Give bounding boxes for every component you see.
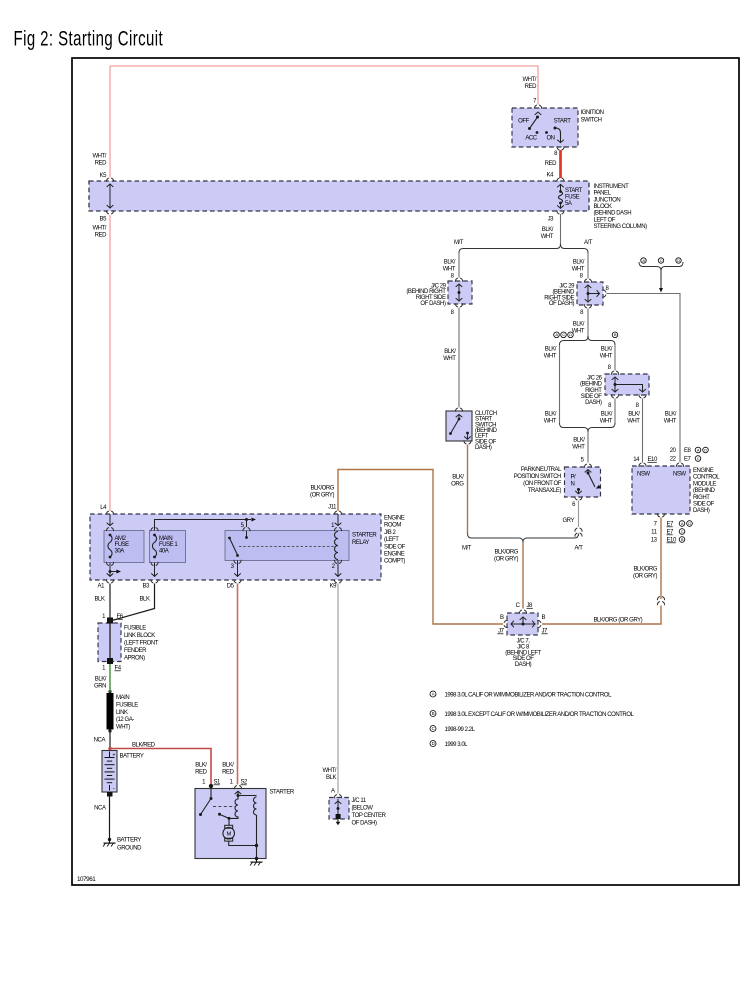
diagram id 107961 [77, 876, 96, 883]
svg-text:BLK/: BLK/ [452, 475, 464, 481]
main fusible link [107, 690, 139, 733]
svg-text:LINK: LINK [116, 710, 128, 716]
svg-text:STEERING COLUMN): STEERING COLUMN) [594, 224, 648, 230]
wire BLK/WHT J/C26 left output [600, 399, 615, 425]
start fuse 5A in junction block [548, 184, 583, 222]
wire NCA battery to ground [94, 797, 109, 839]
svg-text:FUSIBLE: FUSIBLE [124, 626, 146, 632]
svg-text:ORG: ORG [451, 482, 464, 488]
svg-text:WHT: WHT [544, 419, 557, 425]
wire NCA main fusible link to battery [94, 731, 110, 751]
svg-text:BATTERY: BATTERY [117, 838, 141, 844]
svg-text:WHT): WHT) [116, 725, 130, 731]
svg-text:DASH): DASH) [585, 400, 602, 406]
svg-text:(BEHIND DASH: (BEHIND DASH [594, 211, 632, 217]
svg-text:D5: D5 [227, 584, 235, 590]
svg-text:PANEL: PANEL [594, 191, 612, 197]
svg-text:107961: 107961 [77, 876, 96, 883]
svg-text:K9: K9 [330, 584, 338, 590]
title [14, 27, 164, 50]
svg-text:BLK/: BLK/ [573, 322, 585, 328]
svg-text:OFF: OFF [518, 119, 529, 125]
svg-text:POSITION SWITCH: POSITION SWITCH [514, 474, 561, 480]
junction connector J/C 7, J/C 8 [497, 603, 548, 668]
svg-text:GRN: GRN [94, 684, 106, 690]
svg-text:JUNCTION: JUNCTION [594, 197, 621, 203]
svg-text:BLK/: BLK/ [222, 763, 234, 769]
svg-text:BLK/: BLK/ [628, 412, 640, 418]
brace merge to park/neutral switch [560, 423, 616, 432]
svg-text:BLK/: BLK/ [601, 347, 613, 353]
svg-text:FENDER: FENDER [124, 648, 147, 654]
svg-text:BLK/ORG: BLK/ORG [494, 550, 518, 556]
svg-text:(OR GRY): (OR GRY) [494, 557, 518, 563]
wire BLK B3 to F6 [112, 584, 155, 621]
svg-text:PARK/NEUTRAL: PARK/NEUTRAL [521, 467, 562, 473]
svg-text:A/T: A/T [584, 240, 593, 246]
svg-text:SIDE OF: SIDE OF [693, 502, 715, 508]
svg-text:WHT: WHT [600, 419, 613, 425]
svg-text:OF DASH): OF DASH) [549, 301, 575, 307]
svg-text:(ON FRONT OF: (ON FRONT OF [523, 481, 562, 487]
svg-text:D: D [432, 741, 435, 746]
svg-text:1998 3.0L CALIF OR W/IMMOBILIZ: 1998 3.0L CALIF OR W/IMMOBILIZER AND/OR … [445, 693, 613, 699]
wire relay pin 2 to K9 [330, 561, 342, 590]
wire BLK/WHT M/T branch to J/C29 [443, 253, 459, 280]
svg-text:SIDE OF: SIDE OF [581, 394, 603, 400]
fuse AM2 30A [104, 528, 144, 566]
svg-text:WHT: WHT [572, 267, 585, 273]
svg-text:LEFT OF: LEFT OF [594, 217, 616, 223]
brace split M/T A/T [454, 240, 593, 253]
svg-text:MAIN: MAIN [159, 536, 172, 542]
svg-text:WHT/: WHT/ [92, 154, 106, 160]
svg-text:OF DASH): OF DASH) [420, 301, 446, 307]
svg-text:BLK/: BLK/ [545, 347, 557, 353]
svg-text:30A: 30A [115, 549, 125, 555]
svg-text:BATTERY: BATTERY [120, 754, 144, 760]
wire BLK A1 to F6 [95, 584, 112, 623]
wire BLK/GRN F4 to main fusible link [94, 664, 110, 692]
svg-text:WHT/: WHT/ [322, 768, 336, 774]
svg-text:WHT: WHT [627, 419, 640, 425]
svg-text:RELAY: RELAY [352, 540, 369, 546]
svg-text:DASH): DASH) [693, 508, 710, 514]
svg-text:Fig 2: Starting Circuit: Fig 2: Starting Circuit [14, 27, 164, 50]
junction connector J/C 29 A/T [544, 279, 609, 308]
svg-text:1998-99 2.2L: 1998-99 2.2L [445, 727, 476, 733]
svg-text:(BEHIND: (BEHIND [580, 382, 603, 388]
fusible link block [98, 614, 159, 672]
svg-text:BLK/ORG: BLK/ORG [310, 486, 334, 492]
wire J11 into relay coil [335, 514, 342, 526]
svg-text:ENGINE: ENGINE [384, 516, 405, 522]
starter [195, 784, 295, 859]
svg-text:BLK/ORG: BLK/ORG [633, 567, 657, 573]
ECM lower pin labels [651, 521, 693, 544]
wire BLK/WHT J3 to M/T-A/T split [541, 214, 561, 245]
svg-text:RIGHT: RIGHT [585, 388, 602, 394]
svg-text:BLK: BLK [140, 597, 150, 603]
svg-text:WHT: WHT [443, 267, 456, 273]
svg-text:BLK/: BLK/ [542, 227, 554, 233]
svg-text:A1: A1 [98, 584, 106, 590]
starter ground [250, 857, 262, 866]
svg-text:M/T: M/T [462, 546, 472, 552]
park/neutral position switch [514, 464, 601, 500]
svg-text:SIDE OF: SIDE OF [384, 544, 406, 550]
brace merge M/T A/T to BLK/ORG [462, 534, 583, 552]
svg-text:RED: RED [222, 770, 234, 776]
svg-text:RIGHT: RIGHT [693, 495, 710, 501]
svg-text:J11: J11 [328, 505, 337, 511]
svg-text:N: N [571, 482, 575, 488]
svg-text:BLK: BLK [95, 597, 105, 603]
svg-text:BLK/: BLK/ [573, 260, 585, 266]
ignition switch [512, 105, 604, 150]
svg-text:LINK BLOCK: LINK BLOCK [124, 633, 155, 639]
wire BLK/ORG to J/C7 J/C8 [494, 543, 523, 609]
svg-text:B: B [542, 615, 546, 621]
wire MAIN FUSE 1 to B3 [143, 563, 159, 590]
fuse MAIN FUSE 1 40A [150, 528, 186, 566]
wire BLK/WHT J/C29 pin8 to ECM NSW [607, 294, 681, 463]
engine room J/B 2 box [90, 514, 406, 580]
svg-text:K4: K4 [547, 173, 555, 179]
wire RED ignition to K4 [545, 150, 564, 182]
svg-text:1999 3.0L: 1999 3.0L [445, 742, 469, 748]
wire WHT/RED B5 to L4 [92, 215, 113, 515]
svg-text:FUSE: FUSE [565, 195, 580, 201]
svg-text:E8: E8 [684, 448, 692, 454]
wire GRY from P/N switch pin 6 [562, 501, 582, 537]
svg-text:WHT: WHT [443, 356, 456, 362]
svg-text:IGNITION: IGNITION [581, 110, 604, 116]
svg-text:ON: ON [546, 136, 554, 142]
svg-text:(BEHIND: (BEHIND [693, 488, 716, 494]
svg-text:GRY: GRY [562, 518, 574, 524]
svg-text:J/C 11: J/C 11 [352, 798, 367, 804]
svg-text:A/T: A/T [575, 546, 584, 552]
svg-text:P/: P/ [571, 475, 577, 481]
svg-text:NSW: NSW [637, 472, 650, 478]
svg-text:ACC: ACC [525, 136, 537, 142]
battery [102, 751, 144, 797]
svg-text:WHT: WHT [541, 234, 554, 240]
svg-text:J/B 2: J/B 2 [384, 530, 397, 536]
svg-text:NCA: NCA [94, 806, 106, 812]
wire BLK/WHT A/T branch to J/C29 [572, 253, 588, 280]
svg-text:BLK/: BLK/ [545, 412, 557, 418]
svg-text:RED: RED [95, 233, 107, 239]
svg-text:M/T: M/T [454, 240, 464, 246]
svg-text:AM2: AM2 [115, 536, 127, 542]
svg-text:STARTER: STARTER [270, 790, 295, 796]
svg-text:40A: 40A [159, 549, 169, 555]
svg-text:ROOM: ROOM [384, 523, 401, 529]
wire AM2 fuse to A1 with branch [98, 563, 121, 590]
svg-text:WHT/: WHT/ [522, 77, 536, 83]
svg-text:SWITCH: SWITCH [581, 118, 602, 124]
svg-text:5A: 5A [565, 201, 572, 207]
svg-text:INSTRUMENT: INSTRUMENT [594, 184, 630, 190]
svg-text:ENGINE: ENGINE [384, 552, 405, 558]
svg-text:RED: RED [95, 161, 107, 167]
model legend [430, 691, 635, 748]
svg-text:BLK/RED: BLK/RED [132, 743, 156, 749]
wire BLK/ORG J/C7 to ECM [542, 518, 665, 625]
svg-text:OF DASH): OF DASH) [352, 821, 378, 827]
svg-text:FUSE 1: FUSE 1 [159, 542, 178, 548]
wire BLK/WHT below J/C29 A/T [572, 309, 588, 337]
wire BLK/WHT merge to P/N switch pin 5 [572, 432, 588, 464]
svg-text:B5: B5 [100, 217, 108, 223]
svg-text:WHT: WHT [572, 329, 585, 335]
brace split ACD / B [554, 332, 618, 345]
svg-text:WHT: WHT [600, 354, 613, 360]
svg-text:BLK/: BLK/ [573, 438, 585, 444]
svg-text:K5: K5 [100, 173, 108, 179]
svg-text:(BELOW: (BELOW [352, 806, 374, 812]
svg-text:GROUND: GROUND [117, 846, 142, 852]
svg-text:BLOCK: BLOCK [594, 204, 613, 210]
svg-text:B: B [500, 615, 504, 621]
svg-text:BLK/: BLK/ [665, 412, 677, 418]
svg-text:J/C 26: J/C 26 [587, 375, 603, 381]
svg-text:FUSE: FUSE [115, 542, 130, 548]
wire BLK/ORG clutch switch to M/T merge [451, 445, 467, 535]
starter relay [225, 523, 377, 570]
svg-text:NSW: NSW [673, 472, 686, 478]
wire BLK/ORG J/C7 to engine room J/B pin J11 [310, 470, 503, 625]
svg-text:BLK/: BLK/ [601, 412, 613, 418]
svg-text:NCA: NCA [94, 738, 106, 744]
wire BLK/RED battery to starter S1 [108, 743, 221, 786]
svg-text:COMPT): COMPT) [384, 559, 405, 565]
wire L4 into AM2 fuse [107, 514, 114, 526]
svg-text:WHT/: WHT/ [92, 226, 106, 232]
svg-text:RED: RED [195, 770, 207, 776]
ECM top pin labels [633, 447, 708, 463]
engine control module [632, 463, 720, 517]
svg-text:E7: E7 [684, 457, 692, 463]
svg-text:MAIN: MAIN [116, 695, 129, 701]
border frame [72, 58, 739, 885]
svg-text:WHT: WHT [664, 419, 677, 425]
wire BLK/WHT B branch to J/C26 [600, 345, 615, 371]
svg-text:TOP CENTER: TOP CENTER [352, 813, 387, 819]
svg-text:MODULE: MODULE [693, 481, 716, 487]
svg-text:RED: RED [525, 84, 537, 90]
svg-text:TRANSAXLE): TRANSAXLE) [528, 488, 562, 494]
clutch start switch [446, 408, 498, 451]
wire WHT/BLK K9 to J/C 11 [322, 584, 338, 795]
battery ground [103, 838, 142, 852]
wire relay pin 3 to D5 [227, 561, 241, 590]
svg-text:START: START [565, 188, 583, 194]
svg-text:ENGINE: ENGINE [693, 468, 714, 474]
wire BLK/WHT ACD branch [544, 345, 560, 425]
svg-text:A: A [331, 789, 335, 795]
svg-text:BLK/: BLK/ [95, 677, 107, 683]
svg-text:BLK/: BLK/ [444, 260, 456, 266]
svg-text:(LEFT: (LEFT [384, 537, 399, 543]
svg-text:(12 GA-: (12 GA- [116, 717, 134, 723]
svg-text:WHT: WHT [572, 445, 585, 451]
wire through junction block K5-B5 [100, 184, 114, 223]
svg-text:APRON): APRON) [124, 656, 145, 662]
svg-text:WHT: WHT [544, 354, 557, 360]
wire WHT/RED from battery feed to ignition switch [110, 66, 538, 105]
svg-text:START: START [554, 119, 572, 125]
svg-text:BLK/ORG (OR GRY): BLK/ORG (OR GRY) [594, 618, 643, 624]
svg-text:BLK/: BLK/ [195, 763, 207, 769]
junction connector J/C 29 M/T [406, 278, 472, 307]
junction connector J/C 26 [580, 371, 649, 409]
wire WHT/RED left drop to K5 [92, 66, 113, 182]
wire BLK/RED D5 to starter S2 [222, 584, 248, 786]
svg-text:BLK: BLK [326, 775, 336, 781]
wire BLK/WHT J/C29 to clutch start switch [443, 308, 459, 408]
svg-text:C: C [432, 726, 435, 731]
svg-text:BLK/: BLK/ [444, 349, 456, 355]
svg-text:RED: RED [545, 161, 557, 167]
svg-text:FUSIBLE: FUSIBLE [116, 702, 138, 708]
instrument panel junction block [89, 181, 647, 230]
svg-text:STARTER: STARTER [352, 533, 377, 539]
svg-text:(OR GRY): (OR GRY) [633, 574, 657, 580]
svg-text:(LEFT FRONT: (LEFT FRONT [124, 641, 159, 647]
svg-text:DASH): DASH) [475, 445, 492, 451]
svg-text:B3: B3 [143, 584, 151, 590]
svg-text:DASH): DASH) [515, 662, 532, 668]
svg-text:M: M [227, 831, 232, 837]
svg-text:1998 3.0L EXCEPT CALIF OR W/IM: 1998 3.0L EXCEPT CALIF OR W/IMMOBILIZER … [445, 712, 635, 718]
wire MAIN FUSE 1 to relay pin 5 [155, 518, 257, 531]
wire BLK/WHT J/C26 right output to ECM pin 14 [627, 399, 642, 463]
junction connector J/C 11 [329, 795, 387, 827]
svg-text:CONTROL: CONTROL [693, 475, 720, 481]
model codes A C D arrow into NSW wire [639, 258, 683, 293]
svg-text:(OR GRY): (OR GRY) [310, 493, 334, 499]
